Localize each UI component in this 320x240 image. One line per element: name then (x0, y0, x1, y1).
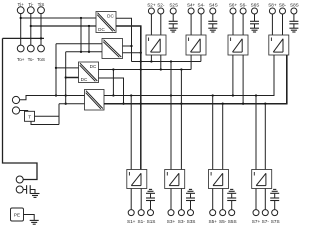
wire V66 jumper (65, 52, 67, 105)
terminal To+ (input row bottom) (17, 45, 25, 62)
wire amp S1 right lead (140, 189, 142, 210)
wire PE to ground (24, 215, 35, 221)
wire S6- to amp (242, 14, 244, 35)
wire amp S5 right lead (222, 189, 224, 210)
ground left (31, 194, 40, 198)
wire U1 out upper to V-bus (116, 18, 132, 61)
svg-text:S1-: S1- (138, 219, 146, 224)
wire amp2 right output to H1 (200, 55, 202, 62)
terminal output B (12, 107, 19, 114)
svg-text:S2-: S2- (157, 3, 165, 8)
svg-text:S6-: S6- (240, 3, 248, 8)
svg-text:S3S: S3S (187, 219, 196, 224)
terminal S4- (198, 3, 206, 14)
capacitor and ground for S6S (250, 14, 259, 32)
wire V181 to lower amp2 (180, 70, 182, 170)
wire S8+ to amp (271, 14, 273, 35)
wire amp2 left output to H2 (190, 55, 192, 70)
wire amp S3 left lead (170, 189, 172, 210)
wire V131 lower to amp1 (130, 96, 132, 170)
terminal S1+ (127, 210, 136, 224)
capacitor and ground for S5S (227, 189, 236, 209)
terminal S8S (290, 3, 299, 14)
terminal S7+ (252, 210, 261, 224)
wire +rail left segment from terminal (20, 96, 85, 100)
isolation amplifier top S2 (146, 35, 166, 55)
terminal S1- (138, 210, 146, 224)
wire tap T1 from Ti+ to DC/DC U1 (20, 17, 96, 19)
wire U1 out lower (bold) to V-bus (116, 26, 141, 62)
svg-text:S1+: S1+ (127, 219, 136, 224)
terminal S7S (271, 210, 280, 224)
terminal S4S (209, 3, 218, 14)
wire amp4 left out to +rail (273, 55, 275, 96)
temperature box T (25, 111, 35, 121)
svg-text:S4+: S4+ (187, 3, 196, 8)
svg-text:Ti+: Ti+ (18, 2, 25, 7)
terminal shield D (16, 186, 23, 193)
wire T-box right out (35, 115, 60, 117)
wire H_a input to U2 upper (56, 43, 102, 45)
terminal shield C (16, 176, 23, 183)
wire V141 (bold) main (140, 26, 142, 170)
capacitor and ground for S3S (186, 189, 195, 209)
wire amp S3 right lead (180, 189, 182, 210)
isolation amplifier bottom S1 (127, 170, 147, 189)
isolation amplifier top S8 (269, 35, 289, 55)
wire V223 to lower amp3 (222, 104, 224, 170)
wire U3 in upper (56, 67, 79, 69)
svg-text:DC: DC (81, 77, 88, 82)
svg-text:S5S: S5S (228, 219, 237, 224)
junction V141/U2 (140, 52, 142, 54)
wire amp S7 right lead (264, 189, 266, 210)
terminal S5S (228, 210, 237, 224)
wire terminal D to capacitor (23, 189, 26, 191)
wire U3 out lower (99, 78, 125, 105)
wire amp3 left out to +rail (232, 55, 234, 96)
dc-dc converter U2 (102, 39, 123, 59)
terminal S7- (262, 210, 270, 224)
wire tap T3 from TiS (3, 37, 45, 39)
terminal Ti- (input row top) (27, 2, 34, 14)
wire V89 from T2 to H_b (88, 26, 90, 52)
svg-text:S5+: S5+ (208, 219, 217, 224)
wire S4+ to amp (190, 14, 192, 35)
wire capacitor to ground (30, 190, 35, 194)
bus H2 (113, 68, 191, 70)
wire U3 in lower (bold) (66, 77, 79, 79)
terminal S4+ (187, 3, 196, 14)
terminal To- (input row bottom) (27, 45, 34, 62)
wire amp4 right out to -rail (bold) (286, 55, 288, 104)
svg-text:S7-: S7- (262, 219, 270, 224)
isolation amplifier top S6 (228, 35, 248, 55)
isolation amplifier top S4 (186, 35, 206, 55)
wire amp S5 left lead (212, 189, 214, 210)
wire V56 from H_a down (55, 44, 57, 97)
svg-text:S8-: S8- (279, 3, 287, 8)
svg-text:S4S: S4S (209, 3, 218, 8)
ground PE (30, 220, 39, 224)
capacitor and ground for S1S (146, 189, 155, 209)
terminal S6- (240, 3, 248, 14)
wire U2 out upper (123, 45, 132, 47)
capacitor and ground for S8S (289, 14, 298, 32)
wire +rail right segment (104, 55, 274, 96)
terminal Ti+ (input row top) (17, 2, 24, 14)
dc-dc converter U3 (79, 62, 99, 83)
svg-text:TiS: TiS (38, 2, 45, 7)
wire S4- to amp (200, 14, 202, 35)
dc-dc converter U4 (85, 90, 105, 111)
svg-text:S4-: S4- (198, 3, 206, 8)
isolation amplifier bottom S3 (165, 170, 185, 189)
capacitor C-left (27, 185, 31, 194)
svg-text:S3-: S3- (178, 219, 186, 224)
capacitor and ground for S2S (169, 14, 178, 32)
wire terminal Ti+ down to lower row (20, 14, 22, 45)
wire U3 out upper to H2 (99, 69, 114, 71)
dc-dc converter U1 (96, 12, 116, 33)
wire terminal B to T-box (20, 110, 28, 113)
wire amp S1 left lead (130, 189, 132, 210)
svg-text:S1S: S1S (147, 219, 156, 224)
wire V81 from T1 to H_b (80, 18, 82, 52)
wire V256 to lower amp4 (255, 96, 257, 170)
junction V131/U2 (130, 45, 132, 47)
junction dots -rail (140, 103, 267, 105)
wire amp S7 left lead (255, 189, 257, 210)
svg-text:S2+: S2+ (147, 3, 156, 8)
svg-text:S8+: S8+ (268, 3, 277, 8)
svg-text:S6S: S6S (251, 3, 260, 8)
wire S2+ to amp (150, 14, 152, 35)
wire amp3 right out to -rail (242, 55, 244, 104)
terminal ToS (input row bottom) (37, 45, 45, 62)
wire amp1 left out (150, 55, 152, 62)
wire -rail right segment (bold) (104, 55, 287, 104)
wire terminal TiS down to lower row (40, 14, 42, 45)
terminal output A (12, 96, 19, 103)
wire T-box bottom path (31, 121, 59, 124)
terminal S2+ (147, 3, 156, 14)
wire S8- to amp (282, 14, 284, 35)
svg-text:Ti-: Ti- (28, 2, 34, 7)
bus H1 (132, 60, 201, 62)
svg-text:S6+: S6+ (229, 3, 238, 8)
svg-text:To-: To- (28, 57, 35, 62)
svg-text:DC: DC (98, 27, 105, 32)
wire shield path left border (3, 38, 38, 179)
svg-text:To+: To+ (17, 57, 25, 62)
svg-text:PE: PE (14, 213, 20, 218)
svg-text:S8S: S8S (290, 3, 299, 8)
svg-text:DC: DC (90, 64, 97, 69)
terminal S2S (169, 3, 178, 14)
isolation amplifier bottom S7 (252, 170, 272, 189)
capacitor and ground for S7S (270, 189, 279, 209)
terminal S3+ (167, 210, 176, 224)
svg-text:ToS: ToS (37, 57, 45, 62)
terminal S6+ (229, 3, 238, 14)
wire H_b input to U2 lower (66, 51, 102, 53)
svg-text:S3+: S3+ (167, 219, 176, 224)
wire S2- to amp (160, 14, 162, 35)
wire V113 to +rail (112, 68, 114, 96)
terminal S3- (178, 210, 186, 224)
svg-text:S7S: S7S (271, 219, 280, 224)
svg-text:T: T (28, 114, 31, 120)
PE box (11, 208, 24, 221)
junction dots +rail (130, 94, 257, 96)
capacitor and ground for S4S (208, 14, 217, 32)
wire V59 (58, 104, 60, 125)
wire tap T2 from Ti- to DC/DC U1 (30, 25, 96, 27)
svg-text:S2S: S2S (169, 3, 178, 8)
terminal S8+ (268, 3, 277, 14)
terminal S2- (157, 3, 165, 14)
wire V265 to lower amp4 (264, 104, 266, 170)
wire V171 to lower amp2 (170, 62, 172, 170)
terminal S5- (219, 210, 227, 224)
wire -rail left segment (59, 103, 85, 105)
terminal S8- (279, 3, 287, 14)
isolation amplifier bottom S5 (209, 170, 229, 189)
wire terminal Ti- down to lower row (30, 14, 32, 45)
wire U2 out lower (123, 52, 141, 54)
svg-text:DC: DC (107, 14, 114, 19)
terminal TiS (input row top) (38, 2, 45, 14)
terminal S5+ (208, 210, 217, 224)
terminal S1S (147, 210, 156, 224)
wire amp1 right out (160, 55, 162, 70)
terminal S3S (187, 210, 196, 224)
terminal S6S (251, 3, 260, 14)
wire S6+ to amp (232, 14, 234, 35)
svg-text:S7+: S7+ (252, 219, 261, 224)
wire V213 to lower amp3 (212, 96, 214, 170)
svg-text:S5-: S5- (219, 219, 227, 224)
